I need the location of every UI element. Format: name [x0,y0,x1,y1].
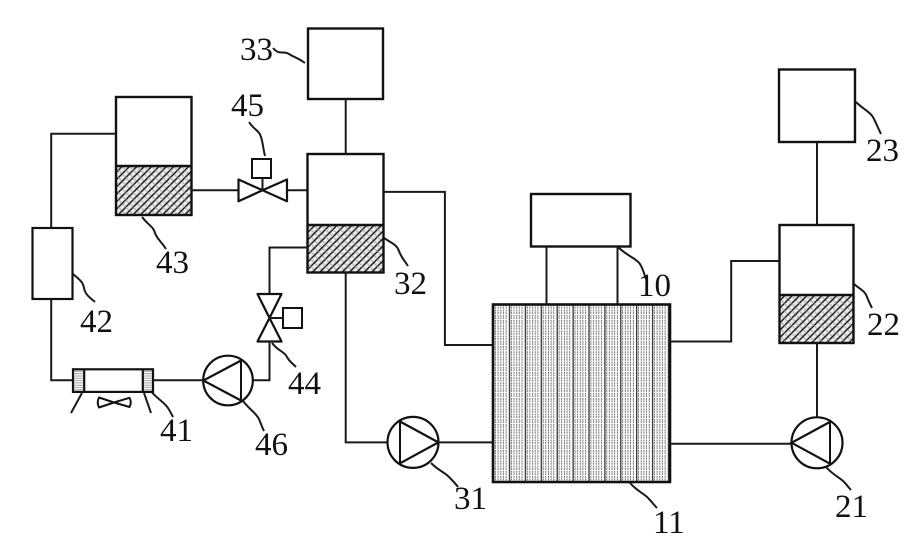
label 32 leader [384,238,408,266]
wire valve 44 to pump 46 [253,342,270,381]
label 31 leader [431,463,458,487]
valve 45 body [239,180,288,202]
svg-text:31: 31 [454,481,487,517]
valve 44 body [258,294,282,342]
box 10 left leg [546,247,548,305]
wire 23 to 22 [816,142,818,225]
box 23 [779,70,855,143]
pump 21 [792,417,843,468]
pump 31 [388,417,439,468]
valve 44 actuator square [283,308,302,328]
wire box 11 to pump 21 [670,443,792,445]
wire 43 to 42 [51,134,116,228]
wire box 11 to tank 22 [670,261,780,342]
svg-text:21: 21 [835,489,868,525]
label 21 leader [826,467,851,490]
wire valve 45 to tank 32 [287,189,307,191]
wire 32 to valve 44 [270,248,308,295]
valve 45 stem [262,178,264,190]
svg-text:32: 32 [394,266,427,302]
wire 41 to pump 46 [153,379,203,381]
wire tank 22 to pump 21 [816,343,818,417]
fan propeller [98,398,131,408]
stack 11 [493,305,670,483]
label 33 leader [273,48,305,63]
wire pump 31 to box 11 [438,441,493,443]
label 42 leader [73,274,95,302]
tank 22 [780,225,854,343]
label 22 leader [854,284,872,308]
radiator 41 left tick [71,393,82,413]
wire 43 to valve 45 [192,189,239,191]
svg-text:23: 23 [866,133,899,169]
tank 43 [116,97,192,215]
svg-text:45: 45 [231,88,264,124]
label 44 leader [272,343,296,367]
wire 42 to 41 [51,299,73,380]
box 42 [33,228,73,299]
pump 46 [203,356,253,406]
svg-text:42: 42 [80,304,113,340]
radiator 41 right tick [144,393,151,413]
label 10 leader [618,247,646,279]
svg-text:22: 22 [867,307,900,343]
label 43 leader [142,217,166,249]
svg-text:41: 41 [160,413,193,449]
label 46 leader [243,401,264,431]
svg-text:43: 43 [156,245,189,281]
label 45 leader [249,122,265,156]
svg-text:11: 11 [653,505,685,541]
label 23 leader [856,102,881,134]
svg-text:10: 10 [638,268,671,304]
svg-text:44: 44 [288,366,321,402]
valve 44 stem [270,317,284,319]
box 10 right leg [617,247,619,305]
svg-text:33: 33 [240,32,273,68]
box 10 [531,194,631,247]
wire 32 to box 11 [384,192,494,345]
wire 33 to 32 [345,99,347,154]
valve 45 actuator square [252,159,271,178]
label 11 leader [630,483,657,508]
tank 32 [308,154,384,273]
box 33 [308,29,383,100]
radiator 41 [73,369,153,392]
wire 32 to pump 31 [346,273,388,443]
label 41 leader [152,393,173,418]
svg-text:46: 46 [255,427,288,463]
